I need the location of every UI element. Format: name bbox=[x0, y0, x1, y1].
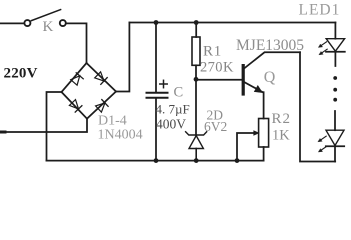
resistor R1 branch top bbox=[195, 23, 197, 38]
diode D4 lower-right bbox=[96, 100, 109, 113]
bridge edge top-left bbox=[62, 63, 87, 92]
svg-text:270K: 270K bbox=[200, 60, 234, 76]
resistor R2 body bbox=[259, 119, 269, 148]
svg-text:D1-4: D1-4 bbox=[98, 114, 127, 129]
junction dot base node bbox=[194, 77, 199, 82]
bridge edge bottom-right bbox=[87, 92, 116, 119]
svg-text:R2: R2 bbox=[272, 111, 292, 127]
svg-text:C: C bbox=[174, 85, 184, 101]
wire bridge positive riser bbox=[116, 23, 129, 92]
LED2 bbox=[318, 111, 344, 162]
switch K bbox=[24, 10, 65, 27]
bridge edge bottom-left bbox=[62, 92, 88, 119]
junction dot rail / zener bbox=[194, 158, 199, 163]
svg-text:LED1: LED1 bbox=[299, 1, 341, 18]
wire zener riser bbox=[195, 79, 197, 135]
wire bottom rail bbox=[47, 160, 264, 162]
transistor Q collector lead bbox=[244, 52, 300, 68]
wire base bbox=[196, 79, 242, 81]
wire neutral return (bridge bottom to 220V) bbox=[0, 119, 87, 132]
ellipsis: more LEDs in chain bbox=[333, 76, 337, 102]
wire R1 bottom to base node bbox=[195, 65, 197, 79]
wire bridge negative to bottom rail bbox=[47, 92, 62, 161]
junction dot top rail / capacitor bbox=[154, 20, 159, 25]
svg-text:MJE13005: MJE13005 bbox=[236, 37, 304, 54]
svg-text:Q: Q bbox=[264, 69, 276, 86]
junction dot rail / capacitor bbox=[154, 158, 159, 163]
junction dot top rail / R1 bbox=[194, 20, 199, 25]
junction dot rail / wiper riser bbox=[235, 158, 240, 163]
svg-text:1N4004: 1N4004 bbox=[98, 128, 143, 143]
wire R2 to bottom rail bbox=[263, 147, 265, 161]
wire collector riser to LED return bbox=[300, 52, 335, 161]
wire live input bbox=[0, 22, 24, 24]
diode D1 upper-left bbox=[71, 73, 84, 85]
svg-text:400V: 400V bbox=[156, 117, 186, 132]
bridge edge top-right bbox=[87, 63, 117, 92]
svg-text:6V2: 6V2 bbox=[204, 119, 227, 134]
svg-text:4. 7µF: 4. 7µF bbox=[156, 102, 190, 117]
transistor Q base bar bbox=[242, 64, 245, 96]
resistor R1 body bbox=[192, 37, 200, 65]
diode D2 upper-right bbox=[95, 72, 108, 85]
capacitor plus sign bbox=[160, 80, 167, 87]
svg-text:220V: 220V bbox=[4, 66, 38, 82]
wire top rail bbox=[129, 22, 335, 24]
svg-text:R1: R1 bbox=[203, 44, 222, 60]
svg-text:K: K bbox=[43, 19, 54, 35]
wire switch to bridge top bbox=[66, 23, 86, 62]
wire emitter to R2 bbox=[263, 92, 265, 118]
capacitor C branch top bbox=[155, 23, 157, 92]
wire R2 wiper return bbox=[237, 131, 259, 161]
transistor Q emitter lead with arrow bbox=[245, 82, 263, 92]
capacitor C plates bbox=[147, 93, 168, 98]
wire top rail corner down to LED1 bbox=[334, 23, 336, 39]
svg-text:1K: 1K bbox=[272, 127, 290, 143]
zener diode 2D bbox=[186, 132, 207, 161]
capacitor C branch bottom bbox=[155, 99, 157, 161]
LED1 bbox=[319, 39, 345, 66]
diode D3 lower-left bbox=[69, 100, 82, 113]
